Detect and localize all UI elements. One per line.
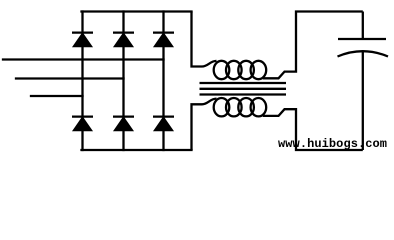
diode top leg3: [153, 33, 174, 47]
wire: AC phase input 1: [3, 58, 164, 60]
wire: bridge leg 3 vertical: [162, 12, 164, 151]
wire: capacitor top lead: [362, 12, 364, 40]
wire: top rail corner down to top choke: [192, 12, 217, 67]
diode top leg1: [72, 33, 93, 47]
wire: bottom rail corner up to bottom choke: [192, 99, 217, 150]
diode top leg2: [113, 33, 134, 47]
wire: AC phase input 3: [31, 95, 83, 97]
transformer core line 3: [200, 93, 287, 95]
diode bottom leg3: [153, 117, 174, 131]
inductor winding L2 (bottom choke, 4 turns): [214, 98, 266, 116]
wire: bridge top rail: [82, 10, 192, 12]
capacitor C top plate: [338, 38, 386, 40]
wire: capacitor bottom lead: [362, 52, 364, 150]
diode bottom leg1: [72, 117, 93, 131]
inductor winding L1 (top choke, 4 turns): [214, 61, 266, 79]
wire: AC phase input 2: [16, 77, 124, 79]
capacitor C bottom plate (curved): [338, 51, 389, 56]
wire: bridge bottom rail: [82, 149, 192, 151]
wire: bridge leg 1 vertical: [81, 12, 83, 151]
wire: top choke output to node, up right vertical: [263, 12, 363, 79]
transformer core line 2: [200, 88, 287, 90]
diode bottom leg2: [113, 117, 134, 131]
wire: bottom choke output to node, down right vertical: [263, 109, 363, 150]
wire: bridge leg 2 vertical: [122, 12, 124, 151]
transformer core line 1: [200, 82, 287, 84]
